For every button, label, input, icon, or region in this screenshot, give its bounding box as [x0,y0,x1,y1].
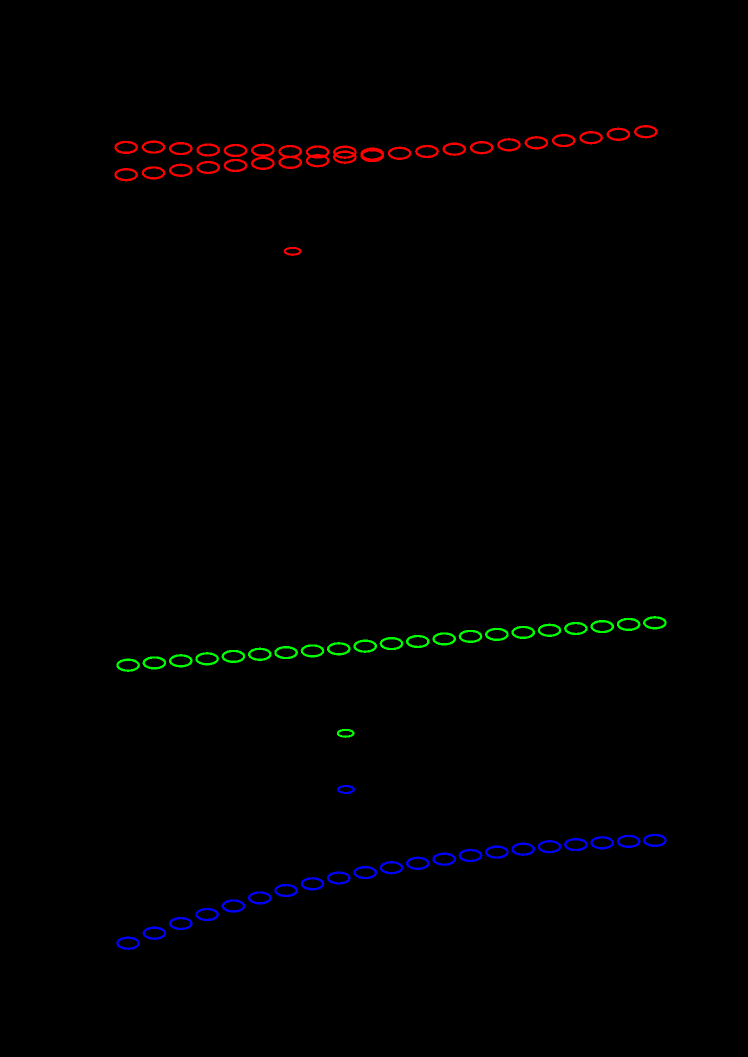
green point 1 at (128.1,665.2) [117,660,138,671]
blue point 5 at (233.4,906.0) [223,901,244,912]
blue point 12 at (417.8,863.3) [407,858,428,869]
blue point 19 at (602.2,842.8) [592,837,613,848]
green point 8 at (312.5,650.9) [302,645,323,656]
blue point 11 at (391.5,867.7) [381,862,402,873]
red upper-branch point 15 at (536.4,142.8) [526,137,547,148]
red merged point 2 at (372.3,155.6) [362,150,383,161]
green point 10 at (365.2,646.2) [355,641,376,652]
red upper-branch point 5 at (235.5,150.5) [225,145,246,156]
blue point 18 at (575.9,844.6) [565,839,586,850]
red upper-branch point 8 at (317.6,152.0) [307,147,328,158]
green small outlier circle [338,730,354,737]
blue point 16 at (523.2,849.2) [513,844,534,855]
green point 14 at (470.5,636.4) [460,631,481,642]
red upper-branch point 1 at (126.1,147.4) [115,142,136,153]
red upper-branch point 3 at (180.8,148.6) [170,143,191,154]
blue point 21 at (654.9,840.4) [644,835,665,846]
red upper-branch point 9 at (344.9,152.2) [334,147,355,158]
red upper-branch point 18 at (618.4,134.3) [608,129,629,140]
green point 20 at (628.6,624.4) [618,619,639,630]
blue point 15 at (496.9,852.1) [486,847,507,858]
blue data series: main branch [117,835,665,949]
red lower-branch point 3 at (180.8,170.3) [170,165,191,176]
green isolated small point [338,730,354,737]
green point 6 at (259.8,654.3) [249,649,270,660]
red upper-branch point 7 at (290.2,151.5) [280,146,301,157]
red lower-branch point 9 at (344.9,157.2) [334,152,355,163]
red lower-branch point 6 at (262.9,163.4) [252,158,273,169]
blue point 14 at (470.5,855.5) [460,850,481,861]
red isolated small point [285,248,301,255]
red merged point 1 at (372.3,154.1) [362,149,383,160]
blue point 10 at (365.2,872.6) [355,867,376,878]
green point 9 at (338.8,648.8) [328,643,349,654]
green point 13 at (444.2,638.9) [434,633,455,644]
red upper-branch point 16 at (563.7,140.6) [553,135,574,146]
red lower-branch point 2 at (153.5,172.9) [143,167,164,178]
green point 19 at (602.2,626.6) [592,621,613,632]
blue point 8 at (312.5,883.8) [302,878,323,889]
blue point 13 at (444.2,859.2) [434,854,455,865]
green point 16 at (523.2,632.4) [513,627,534,638]
blue point 7 at (286.1,890.5) [275,885,296,896]
red upper-branch point 11 at (427.0,151.5) [416,146,437,157]
green point 11 at (391.5,643.6) [381,638,402,649]
green point 7 at (286.1,652.6) [275,647,296,658]
blue point 3 at (180.8,923.5) [170,918,191,929]
red upper-branch point 14 at (509.0,144.8) [498,139,519,150]
blue small outlier circle [338,786,354,793]
red data series: lower branch [115,152,355,180]
green point 4 at (207.1,658.8) [196,653,217,664]
green point 15 at (496.9,634.4) [486,629,507,640]
red small outlier circle [285,248,301,255]
red lower-branch point 4 at (208.2,167.5) [198,162,219,173]
red upper-branch point 6 at (262.9,150.3) [252,145,273,156]
red lower-branch point 1 at (126.1,174.7) [115,169,136,180]
blue point 17 at (549.5,846.7) [539,841,560,852]
red upper-branch point 4 at (208.2,150.0) [198,145,219,156]
green point 5 at (233.4,656.4) [223,651,244,662]
red lower-branch point 8 at (317.6,160.7) [307,155,328,166]
red lower-branch point 5 at (235.5,165.5) [225,160,246,171]
green point 17 at (549.5,630.3) [539,625,560,636]
red upper-branch point 10 at (399.6,153.3) [389,148,410,159]
red data series: upper branch [115,126,656,159]
green point 2 at (154.4,662.9) [144,657,165,668]
green point 18 at (575.9,628.5) [565,623,586,634]
red lower-branch point 7 at (290.2,162.4) [280,157,301,168]
red data series: merged degenerate pair [362,149,383,161]
blue point 6 at (259.8,897.9) [249,892,270,903]
blue point 4 at (207.1,914.5) [196,909,217,920]
red upper-branch point 13 at (481.7,147.7) [471,142,492,153]
blue isolated small point [338,786,354,793]
red upper-branch point 19 at (645.8,131.7) [635,126,656,137]
green data series: main branch [117,617,665,670]
red upper-branch point 17 at (591.1,137.7) [580,132,601,143]
green point 3 at (180.8,660.8) [170,655,191,666]
blue point 1 at (128.1,943.2) [117,938,138,949]
green point 12 at (417.8,641.5) [407,636,428,647]
red upper-branch point 2 at (153.5,147.1) [143,142,164,153]
blue point 9 at (338.8,878.0) [328,873,349,884]
red upper-branch point 12 at (454.3,149.2) [444,144,465,155]
green point 21 at (654.9,622.8) [644,617,665,628]
blue point 20 at (628.6,841.4) [618,836,639,847]
blue point 2 at (154.4,933.2) [144,928,165,939]
